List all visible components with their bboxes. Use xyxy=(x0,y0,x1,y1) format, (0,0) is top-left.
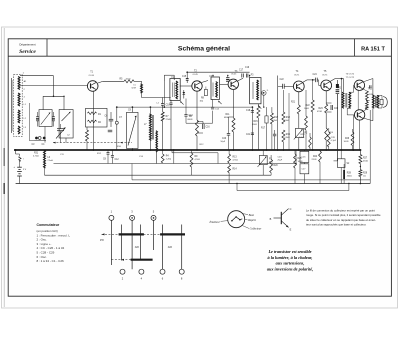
box bias R1 R2 xyxy=(86,108,108,127)
R17 box xyxy=(266,107,268,116)
svg-text:220Ω: 220Ω xyxy=(312,159,317,161)
R13 R14 xyxy=(228,150,230,154)
rail3 xyxy=(45,174,272,176)
dashed PO link xyxy=(102,233,161,235)
output transformer xyxy=(372,95,374,108)
trimmer circles xyxy=(35,137,38,140)
R27 R29 column xyxy=(359,155,362,164)
bias column xyxy=(341,79,343,150)
T2 emitter chain xyxy=(196,91,198,120)
svg-text:33kΩ: 33kΩ xyxy=(252,124,257,126)
transistor T1 xyxy=(87,81,98,92)
svg-text:OC45: OC45 xyxy=(193,74,199,76)
osc coil L4 xyxy=(149,107,151,114)
svg-text:680Ω: 680Ω xyxy=(188,119,193,121)
switch wafer diagram xyxy=(109,215,114,220)
T2 collector wire xyxy=(202,81,209,83)
T5 base xyxy=(318,80,320,86)
battery xyxy=(15,150,17,154)
R16 xyxy=(271,107,273,113)
svg-text:aux inversions de polarité,: aux inversions de polarité, xyxy=(267,267,313,272)
transistor T5 xyxy=(321,80,332,91)
transistor T7 xyxy=(354,110,364,120)
vertical x173.8 xyxy=(173,150,175,164)
svg-text:460Ω: 460Ω xyxy=(347,175,352,177)
frame border xyxy=(8,39,391,296)
cap near T7 xyxy=(365,107,368,109)
avc link line xyxy=(172,152,218,154)
R extra column xyxy=(305,90,307,116)
svg-text:25µF: 25µF xyxy=(278,159,283,161)
svg-text:TR2: TR2 xyxy=(368,89,373,91)
resistor R5 xyxy=(124,80,134,83)
bypass cap xyxy=(197,121,203,123)
R22 xyxy=(312,80,314,100)
svg-text:2,2kΩ: 2,2kΩ xyxy=(166,158,172,160)
svg-text:Collecteur: Collecteur xyxy=(250,227,263,230)
IF3 can xyxy=(250,78,261,104)
T3 base wire xyxy=(220,83,228,85)
wire xyxy=(42,96,44,109)
transistor T4 xyxy=(293,81,304,92)
svg-text:à la lumière, à la chaleur,: à la lumière, à la chaleur, xyxy=(268,255,313,260)
L6 choke below rail xyxy=(44,150,46,168)
R15 xyxy=(257,104,259,106)
x313 cap xyxy=(313,150,315,164)
svg-text:Schéma général: Schéma général xyxy=(178,45,230,52)
svg-text:Base: Base xyxy=(249,214,255,217)
P1 volume pot xyxy=(262,150,264,156)
svg-text:5,6kΩ: 5,6kΩ xyxy=(299,137,305,139)
svg-text:50µF: 50µF xyxy=(221,141,226,143)
svg-text:15kΩ: 15kΩ xyxy=(284,120,289,122)
svg-text:27mH: 27mH xyxy=(48,160,54,162)
T3 emitter chain xyxy=(233,90,235,119)
columns under detector xyxy=(251,107,253,150)
svg-text:1kΩ: 1kΩ xyxy=(200,100,204,102)
svg-text:T7 OC72: T7 OC72 xyxy=(346,77,355,79)
transistor symbol xyxy=(280,212,282,224)
svg-text:OC75: OC75 xyxy=(322,74,328,76)
volume line xyxy=(277,76,279,151)
ferrite antenna A1 xyxy=(14,75,23,137)
svg-text:de situer le collecteur en se: de situer le collecteur en se rappelant … xyxy=(306,218,376,222)
top supply rail xyxy=(187,71,249,73)
IF2 can xyxy=(211,77,219,100)
cap C11 xyxy=(170,100,172,103)
R18 R19 xyxy=(282,90,284,112)
cap C13 xyxy=(185,99,187,115)
svg-text:4,7kΩ: 4,7kΩ xyxy=(233,159,239,161)
T6 collector to OT xyxy=(363,79,373,82)
wire xyxy=(164,74,174,76)
wire xyxy=(357,91,359,110)
svg-text:Repère: Repère xyxy=(247,219,257,222)
wire xyxy=(28,103,30,141)
T4 collector wire xyxy=(303,80,308,83)
transistor T3 xyxy=(228,79,238,89)
cap xyxy=(36,116,39,118)
right vertical from T7 xyxy=(359,120,361,150)
svg-text:Commutateur: Commutateur xyxy=(37,223,60,227)
T1 emitter wire xyxy=(92,91,94,150)
title bar xyxy=(8,55,391,57)
osc gang box xyxy=(127,112,139,148)
main negative rail xyxy=(14,149,360,151)
wire xyxy=(63,96,65,109)
x296 vertical xyxy=(295,150,297,164)
svg-text:Émetteur: Émetteur xyxy=(209,221,221,224)
cap C23 xyxy=(273,133,276,135)
svg-text:4,7kΩ: 4,7kΩ xyxy=(195,159,201,161)
svg-text:Département: Département xyxy=(19,42,35,46)
lower wire xyxy=(237,190,349,192)
svg-text:4,7kΩ: 4,7kΩ xyxy=(33,156,39,158)
svg-text:aux surtensions,: aux surtensions, xyxy=(276,261,305,266)
svg-text:C: C xyxy=(290,208,292,211)
svg-text:470Ω: 470Ω xyxy=(317,111,322,113)
caps below rail x108 x112 xyxy=(107,150,109,153)
svg-text:5mH: 5mH xyxy=(132,88,137,90)
svg-text:OC71: OC71 xyxy=(294,74,300,76)
small R8 xyxy=(204,90,207,96)
choke L5 xyxy=(141,84,143,93)
S2 box xyxy=(338,159,346,168)
thermistor R28 xyxy=(343,170,345,179)
IF1 can xyxy=(170,79,180,101)
T7 collector to OT xyxy=(364,118,373,121)
dashed gang link xyxy=(53,142,132,144)
coupling caps C17 C19 xyxy=(241,74,243,78)
wafer bars xyxy=(119,233,144,235)
speaker xyxy=(380,99,383,104)
wire xyxy=(43,95,64,97)
wire xyxy=(44,127,46,143)
transistor pinout circle xyxy=(228,211,245,228)
T4 emitter xyxy=(298,92,300,105)
bypass cap xyxy=(326,102,331,104)
svg-text:100Ω: 100Ω xyxy=(344,141,349,143)
svg-text:Le fil de connexion du collect: Le fil de connexion du collecteur est re… xyxy=(306,208,375,212)
rail2 xyxy=(54,163,297,165)
svg-text:680Ω: 680Ω xyxy=(224,117,229,119)
svg-text:Service: Service xyxy=(19,49,36,55)
T5 emitter xyxy=(325,91,327,104)
wire antenna top xyxy=(20,75,54,77)
R21b xyxy=(294,150,296,154)
wire xyxy=(65,138,67,143)
svg-text:T6 OC72: T6 OC72 xyxy=(346,74,355,76)
svg-text:10kΩ: 10kΩ xyxy=(304,108,309,110)
rail3b xyxy=(132,179,370,181)
wire xyxy=(53,76,55,97)
wafer verticals xyxy=(110,220,112,265)
R9 below rail xyxy=(191,150,193,153)
right bottom corner vertical xyxy=(369,150,371,184)
diode OA79 osc xyxy=(183,90,185,99)
T1 collector wire xyxy=(98,81,103,83)
osc cap C10 + R7 xyxy=(162,98,164,104)
cap cluster / gang2 xyxy=(109,118,114,120)
svg-text:450Ω: 450Ω xyxy=(363,160,368,162)
above-rail right resistors xyxy=(351,132,354,146)
detector diode xyxy=(262,91,267,96)
pot P2 xyxy=(295,128,303,137)
svg-text:Le transistor est sensible: Le transistor est sensible xyxy=(267,249,311,254)
bottom rail xyxy=(16,183,371,185)
svg-text:0,1µF: 0,1µF xyxy=(331,140,337,142)
emitter resistor R30 xyxy=(363,89,367,91)
transistor T6 xyxy=(354,80,364,90)
svg-text:12kΩ: 12kΩ xyxy=(272,120,277,122)
wire xyxy=(186,122,213,124)
svg-text:PO: PO xyxy=(100,238,104,242)
svg-text:RA 151 T: RA 151 T xyxy=(361,47,385,53)
driver transformer xyxy=(342,92,344,108)
cap C15 xyxy=(186,72,188,78)
svg-text:OC45: OC45 xyxy=(231,74,237,76)
svg-text:teur sont plus rapprochés que: teur sont plus rapprochés que base et co… xyxy=(306,223,367,227)
cap xyxy=(52,116,55,118)
svg-text:rouge. Si ce point n'existait: rouge. Si ce point n'existait plus, il s… xyxy=(306,213,381,217)
resistor R3 xyxy=(86,127,88,130)
AVC wire xyxy=(117,106,253,108)
wire xyxy=(288,93,290,150)
T2 base wire xyxy=(180,85,192,87)
R20 xyxy=(270,159,272,164)
transistor T2 xyxy=(192,81,202,91)
R24 xyxy=(319,150,321,151)
svg-text:8 : 1 à 34 - C1 - C26: 8 : 1 à 34 - C1 - C26 xyxy=(37,259,65,263)
secondary taps to T6 T7 xyxy=(350,91,354,93)
T3 collector xyxy=(238,78,243,81)
cap C24 xyxy=(315,78,317,83)
left fold shadow xyxy=(3,28,5,307)
wire antenna to T1 base xyxy=(20,85,87,87)
R4 xyxy=(162,150,164,154)
cap C22 + T4 base xyxy=(282,84,284,89)
x348.9 vertical to lower wire xyxy=(348,168,350,191)
boxes bottom right xyxy=(300,151,309,162)
svg-text:22kΩ: 22kΩ xyxy=(166,119,171,121)
box osc trimmer C5 + varcap C2 xyxy=(59,110,73,138)
box RF trimmer C1 xyxy=(39,110,52,127)
wire L5 to IF1 xyxy=(141,93,143,98)
svg-text:OC44: OC44 xyxy=(89,75,95,77)
svg-text:100Ω: 100Ω xyxy=(126,79,131,81)
T5 collector xyxy=(330,79,335,82)
